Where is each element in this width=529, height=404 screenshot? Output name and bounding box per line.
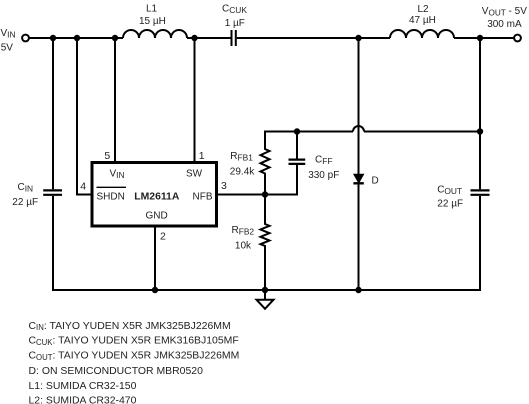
resistor RFB2 — [261, 195, 270, 291]
wire CIN top lead — [52, 38, 54, 189]
svg-text:CCUK: TAIYO YUDEN X5R EMK316BJ: CCUK: TAIYO YUDEN X5R EMK316BJ105MF — [29, 336, 239, 347]
note L1 part — [29, 381, 137, 392]
svg-text:22 µF: 22 µF — [12, 197, 38, 208]
svg-text:29.4k: 29.4k — [230, 166, 255, 177]
node VOUT terminal — [514, 35, 521, 42]
svg-text:NFB: NFB — [193, 191, 213, 202]
U1 part number LM2611A — [134, 191, 180, 202]
note CIN part — [29, 321, 231, 332]
wire pin 5 VIN — [114, 38, 116, 161]
svg-text:L2: SUMIDA CR32-470: L2: SUMIDA CR32-470 — [29, 395, 137, 404]
svg-text:LM2611A: LM2611A — [134, 191, 180, 202]
svg-text:SW: SW — [186, 169, 203, 180]
pin number 1 — [199, 150, 205, 162]
resistor RFB1 — [261, 132, 270, 195]
svg-text:RFB2: RFB2 — [232, 225, 255, 237]
svg-text:15 µH: 15 µH — [139, 16, 166, 27]
note D part — [29, 366, 204, 377]
svg-text:10k: 10k — [235, 241, 252, 252]
CFF label — [308, 155, 339, 181]
junction dot pin1 / SW — [191, 35, 197, 41]
L2 value label — [409, 4, 436, 26]
note CCUK part — [29, 336, 239, 347]
svg-text:L1: L1 — [146, 4, 158, 15]
svg-text:3: 3 — [221, 180, 227, 192]
svg-text:L2: L2 — [418, 4, 430, 15]
wire SHDN pin 4 — [77, 38, 91, 195]
D label — [372, 176, 379, 187]
ground — [257, 290, 274, 309]
COUT label — [437, 185, 463, 210]
svg-text:5: 5 — [104, 150, 110, 162]
U1 pin label NFB — [193, 191, 213, 202]
junction dot COUT tap — [477, 35, 483, 41]
pin number 2 — [160, 230, 166, 242]
svg-text:D: ON SEMICONDUCTOR MBR0520: D: ON SEMICONDUCTOR MBR0520 — [29, 366, 204, 377]
U1 pin label SW — [186, 169, 203, 180]
inductor L1 — [123, 30, 187, 38]
svg-text:1 µF: 1 µF — [225, 18, 245, 29]
svg-text:2: 2 — [160, 230, 166, 242]
L1 value label — [139, 4, 166, 27]
wire hop over diode line — [353, 126, 364, 131]
svg-text:COUT: TAIYO YUDEN X5R JMK325BJ: COUT: TAIYO YUDEN X5R JMK325BJ226MM — [29, 351, 240, 362]
junction dot pin5 / L1 left — [112, 35, 118, 41]
U1 pin label GND — [146, 211, 168, 222]
junction dot VOUT sense tap — [477, 128, 483, 134]
svg-text:CIN: TAIYO YUDEN X5R JMK325BJ2: CIN: TAIYO YUDEN X5R JMK325BJ226MM — [29, 321, 231, 332]
svg-text:VIN: VIN — [1, 28, 16, 40]
svg-text:300 mA: 300 mA — [487, 19, 522, 30]
wire diode bottom lead — [358, 185, 360, 291]
svg-text:GND: GND — [146, 211, 168, 222]
svg-text:SHDN: SHDN — [97, 191, 125, 202]
svg-text:22 µF: 22 µF — [437, 199, 463, 210]
svg-text:RFB1: RFB1 — [230, 151, 253, 163]
capacitor COUT — [471, 190, 490, 194]
svg-text:5V: 5V — [1, 43, 14, 54]
junction dot GND pin2 — [152, 287, 158, 293]
svg-text:VOUT - 5V: VOUT - 5V — [482, 6, 527, 18]
op-amp U1 LM2611A box — [92, 163, 217, 227]
wire NFB pin 3 — [218, 194, 298, 196]
svg-text:330 pF: 330 pF — [308, 170, 339, 181]
capacitor CCUK — [232, 30, 236, 46]
node VIN terminal — [22, 35, 29, 42]
U1 pin label SHDN (overline) — [97, 187, 127, 202]
wire L2 to VOUT terminal — [454, 37, 514, 39]
wire CIN bottom lead — [52, 196, 54, 290]
capacitor CIN — [43, 190, 62, 194]
note COUT part — [29, 351, 240, 362]
svg-text:1: 1 — [199, 150, 205, 162]
CIN label — [12, 182, 38, 208]
svg-text:CIN: CIN — [18, 182, 34, 194]
svg-text:CFF: CFF — [315, 155, 332, 167]
junction dot CFF top — [294, 128, 300, 134]
pin number 4 — [80, 181, 86, 193]
node VOUT label — [482, 6, 527, 30]
wire pin 1 SW — [194, 38, 196, 161]
svg-text:VIN: VIN — [110, 168, 125, 180]
wire diode top lead — [358, 38, 360, 175]
svg-text:47 µH: 47 µH — [409, 15, 436, 26]
pin number 5 — [104, 150, 110, 162]
RFB1 label — [230, 151, 255, 177]
U1 pin label VIN — [110, 168, 125, 180]
wire bottom rail — [52, 289, 481, 291]
wire feedback sense line right — [364, 131, 480, 133]
junction dot CIN tap — [50, 35, 56, 41]
junction dot feedback node — [262, 191, 268, 197]
svg-text:CCUK: CCUK — [222, 4, 247, 16]
svg-text:4: 4 — [80, 181, 86, 193]
note L2 part — [29, 395, 137, 404]
svg-text:COUT: COUT — [437, 185, 462, 197]
inductor L2 — [390, 30, 454, 38]
junction dot diode bottom — [355, 287, 361, 293]
wire feedback sense line — [264, 131, 353, 133]
wire CCUK to L2 — [237, 37, 390, 39]
pin number 3 — [221, 180, 227, 192]
junction dot SHDN tap — [74, 35, 80, 41]
diode D — [353, 174, 363, 183]
wire pin 2 GND — [154, 228, 156, 291]
wire COUT top lead — [479, 38, 481, 189]
svg-text:L1: SUMIDA CR32-150: L1: SUMIDA CR32-150 — [29, 381, 137, 392]
wire SW node top — [187, 37, 231, 39]
capacitor CFF — [289, 132, 306, 195]
node VIN label — [1, 28, 16, 54]
junction dot diode top — [355, 35, 361, 41]
svg-text:D: D — [372, 176, 379, 187]
junction dot ground tap — [262, 287, 268, 293]
wire top rail left — [29, 37, 123, 39]
CCUK label — [222, 4, 247, 30]
RFB2 label — [232, 225, 255, 251]
wire COUT bottom lead — [479, 196, 481, 290]
